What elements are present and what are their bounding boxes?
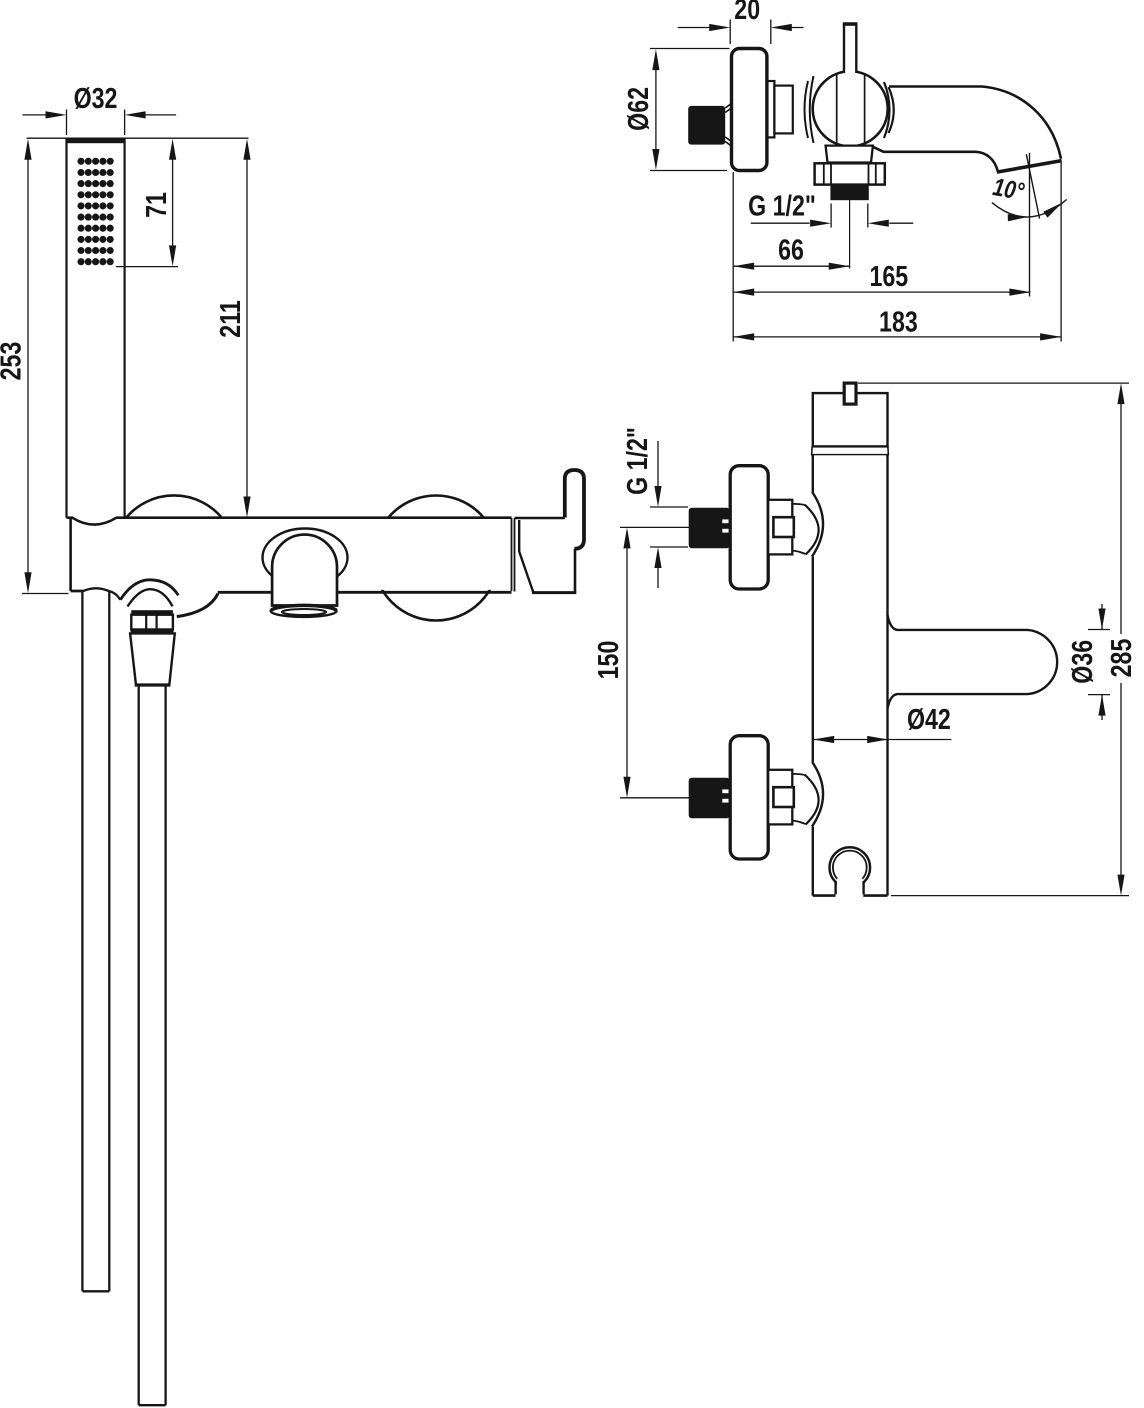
svg-text:71: 71	[141, 192, 173, 218]
svg-text:165: 165	[869, 261, 908, 293]
hose connector dome	[120, 580, 178, 607]
angle reference lines 10 deg	[991, 153, 1067, 297]
dimension D32	[23, 83, 177, 135]
bottom eccentric: notch	[773, 787, 793, 807]
top eccentric: knob	[689, 508, 730, 549]
svg-text:G 1/2": G 1/2"	[748, 191, 816, 223]
neck below ball	[826, 146, 873, 163]
ball socket arcs (right of ball)	[884, 82, 894, 138]
body joint seam lines	[512, 518, 515, 592]
svg-text:183: 183	[879, 306, 918, 338]
dimension 165	[733, 261, 1030, 296]
ball seam lines	[837, 74, 865, 144]
dimension 66	[733, 235, 850, 270]
hose collar and slot box	[131, 610, 174, 633]
dimension D36	[1067, 604, 1110, 720]
svg-text:Ø36: Ø36	[1067, 640, 1099, 684]
spout (stadium, side)	[888, 615, 1058, 709]
hand shower head body	[66, 139, 126, 518]
svg-text:66: 66	[778, 235, 804, 267]
dimension 20	[678, 0, 804, 44]
dimension 71	[116, 139, 178, 267]
top eccentric: dome	[792, 492, 823, 557]
bottom eccentric: connector	[768, 770, 792, 825]
svg-text:Ø32: Ø32	[74, 83, 118, 115]
top eccentric: notch	[773, 517, 793, 537]
bottom eccentric: wall plate	[730, 736, 768, 859]
bottom eccentric: knob	[689, 778, 730, 819]
spray face dots	[77, 158, 113, 266]
dimension D62	[623, 49, 729, 171]
right rosette	[374, 496, 499, 621]
hex nut	[815, 163, 885, 184]
svg-text:211: 211	[215, 300, 247, 337]
column body	[813, 455, 888, 895]
dimension D42	[813, 704, 951, 743]
extension lines for 66/165/183	[733, 162, 1061, 342]
seam ring	[812, 446, 889, 455]
spout ring escutcheon	[263, 529, 348, 587]
lever tab	[844, 383, 856, 404]
faucet body bar	[67, 518, 512, 600]
svg-text:Ø62: Ø62	[623, 87, 655, 131]
dimension 253	[0, 139, 69, 594]
wall plate (side view)	[732, 49, 767, 171]
svg-text:20: 20	[734, 0, 760, 26]
top reference extension line	[27, 137, 249, 139]
svg-text:G 1/2": G 1/2"	[622, 427, 654, 495]
valve body arcs behind ball (left)	[805, 76, 814, 143]
dimension 150	[593, 527, 690, 797]
dimension 183	[733, 306, 1061, 340]
bottom eccentric: dome	[792, 762, 823, 827]
top eccentric: wall plate	[730, 466, 768, 589]
centerline	[849, 200, 851, 269]
dimension 285	[858, 383, 1138, 896]
eccentric union nut	[768, 81, 775, 137]
thread dimension arrows	[751, 204, 914, 228]
spout outlet	[271, 605, 337, 617]
top eccentric: connector	[768, 500, 792, 555]
G 1/2 inch dimension (right view)	[622, 427, 688, 588]
center spout arch	[272, 535, 337, 606]
eccentric cylinder	[774, 86, 792, 134]
dimension 211	[215, 139, 251, 518]
body end cap	[515, 518, 577, 593]
shower handle lower tube	[82, 588, 109, 1291]
spout tube (side view)	[870, 87, 1061, 172]
spout tip edge	[997, 161, 1062, 173]
column top cap	[813, 393, 888, 446]
svg-text:150: 150	[593, 641, 625, 680]
holder ring	[830, 847, 871, 894]
left rosette	[126, 495, 222, 517]
swoosh fillet	[177, 594, 218, 617]
hose from cone	[139, 686, 166, 1405]
svg-text:Ø42: Ø42	[907, 704, 951, 736]
lever handle (front view)	[565, 470, 584, 549]
cone	[130, 633, 175, 685]
svg-text:253: 253	[0, 342, 28, 381]
knob (black, top view)	[688, 104, 731, 146]
thread (black)	[830, 185, 868, 201]
lever stem (top view)	[843, 24, 858, 74]
svg-text:10°: 10°	[991, 173, 1027, 206]
ball body	[813, 71, 888, 146]
svg-text:285: 285	[1106, 639, 1138, 678]
